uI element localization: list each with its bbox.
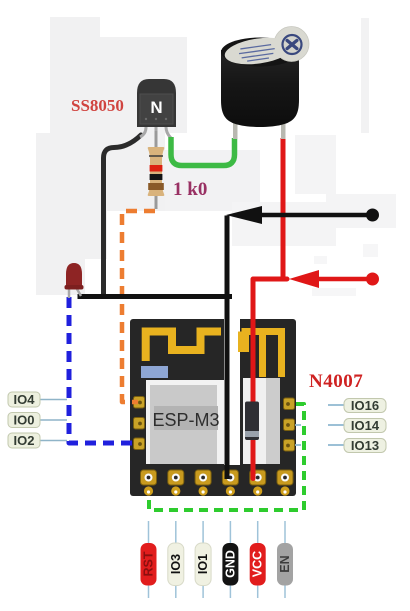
leader line IO13 [295,444,345,446]
ground bus wire [80,294,230,299]
wire black from transistor emitter to ground bus [104,135,142,295]
blue dashed wire from LED to module pad [69,297,137,443]
pin label IO1 [195,543,211,586]
LED D2 red [65,263,84,298]
green dashed wire N4007 route [149,404,304,510]
svg-text:IO4: IO4 [14,392,36,407]
red wire from buzzer junction to VCC pad [253,279,287,479]
red power wire with terminal dot [289,270,379,288]
module left edge pads [134,397,145,450]
label IO16 [344,398,386,413]
leader line IO16 [328,404,345,406]
svg-text:N: N [150,98,162,117]
svg-text:IO13: IO13 [351,438,379,453]
svg-text:IO1: IO1 [196,554,210,574]
svg-text:GND: GND [223,550,237,578]
shield component blue [141,366,168,378]
svg-text:IO16: IO16 [351,398,379,413]
green wire from transistor to buzzer [171,137,235,166]
leader line IO14 [295,424,345,426]
label IO14 [344,418,386,433]
leader line IO0 [40,419,67,421]
leader line IO4 [40,399,67,401]
svg-text:RST: RST [142,551,156,576]
pin label RST [141,543,157,586]
label N4007 [309,371,363,392]
transistor Q1 SS8050 [137,79,176,148]
svg-text:IO14: IO14 [351,418,380,433]
label IO2 [8,433,40,448]
label SS8050 [71,96,124,115]
svg-text:SS8050: SS8050 [71,96,124,115]
module right edge pads [284,398,295,451]
antenna trace left [146,332,221,362]
svg-text:1 k0: 1 k0 [173,179,207,200]
orange dashed wire to IO pad [122,211,155,402]
svg-text:N4007: N4007 [309,371,363,392]
svg-text:IO3: IO3 [169,554,183,574]
antenna trace right [242,332,282,378]
label 1k0 [173,179,207,200]
pin label EN [277,543,293,586]
svg-text:IO2: IO2 [14,433,35,448]
label IO0 [8,413,40,428]
svg-text:EN: EN [278,555,292,572]
red wire from buzzer pin down [281,138,286,281]
ESP-M3 module U1 [130,319,296,496]
pin label GND [222,543,238,586]
buzzer BZ1 [221,27,309,140]
label IO4 [8,392,40,407]
black power wire with terminal dot [226,206,379,224]
svg-text:IO0: IO0 [14,413,35,428]
module bottom pads [141,470,294,496]
diode D1 N4007 [245,402,259,441]
resistor R1 [148,131,165,209]
svg-text:VCC: VCC [251,551,265,577]
svg-text:ESP-M3: ESP-M3 [152,410,219,430]
wire black vertical to GND pad [225,216,230,480]
bottom pin leader lines [149,521,286,598]
pin label IO3 [168,543,184,586]
leader line IO2 [40,440,67,442]
label IO13 [344,438,386,453]
pin label VCC [250,543,266,586]
